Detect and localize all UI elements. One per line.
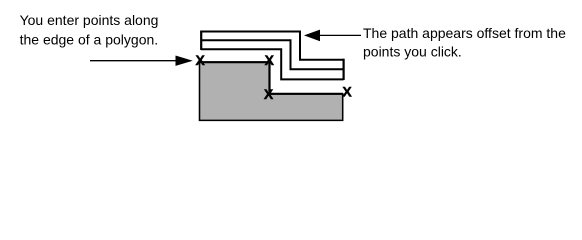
- svg-text:the edge of a polygon.: the edge of a polygon.: [20, 31, 159, 47]
- svg-text:X: X: [196, 52, 206, 68]
- svg-text:The path appears offset from t: The path appears offset from the: [363, 25, 566, 41]
- svg-text:X: X: [265, 52, 275, 68]
- svg-text:X: X: [342, 84, 352, 100]
- svg-text:X: X: [264, 86, 274, 102]
- svg-text:You enter points along: You enter points along: [20, 12, 159, 28]
- svg-text:points you click.: points you click.: [363, 43, 462, 59]
